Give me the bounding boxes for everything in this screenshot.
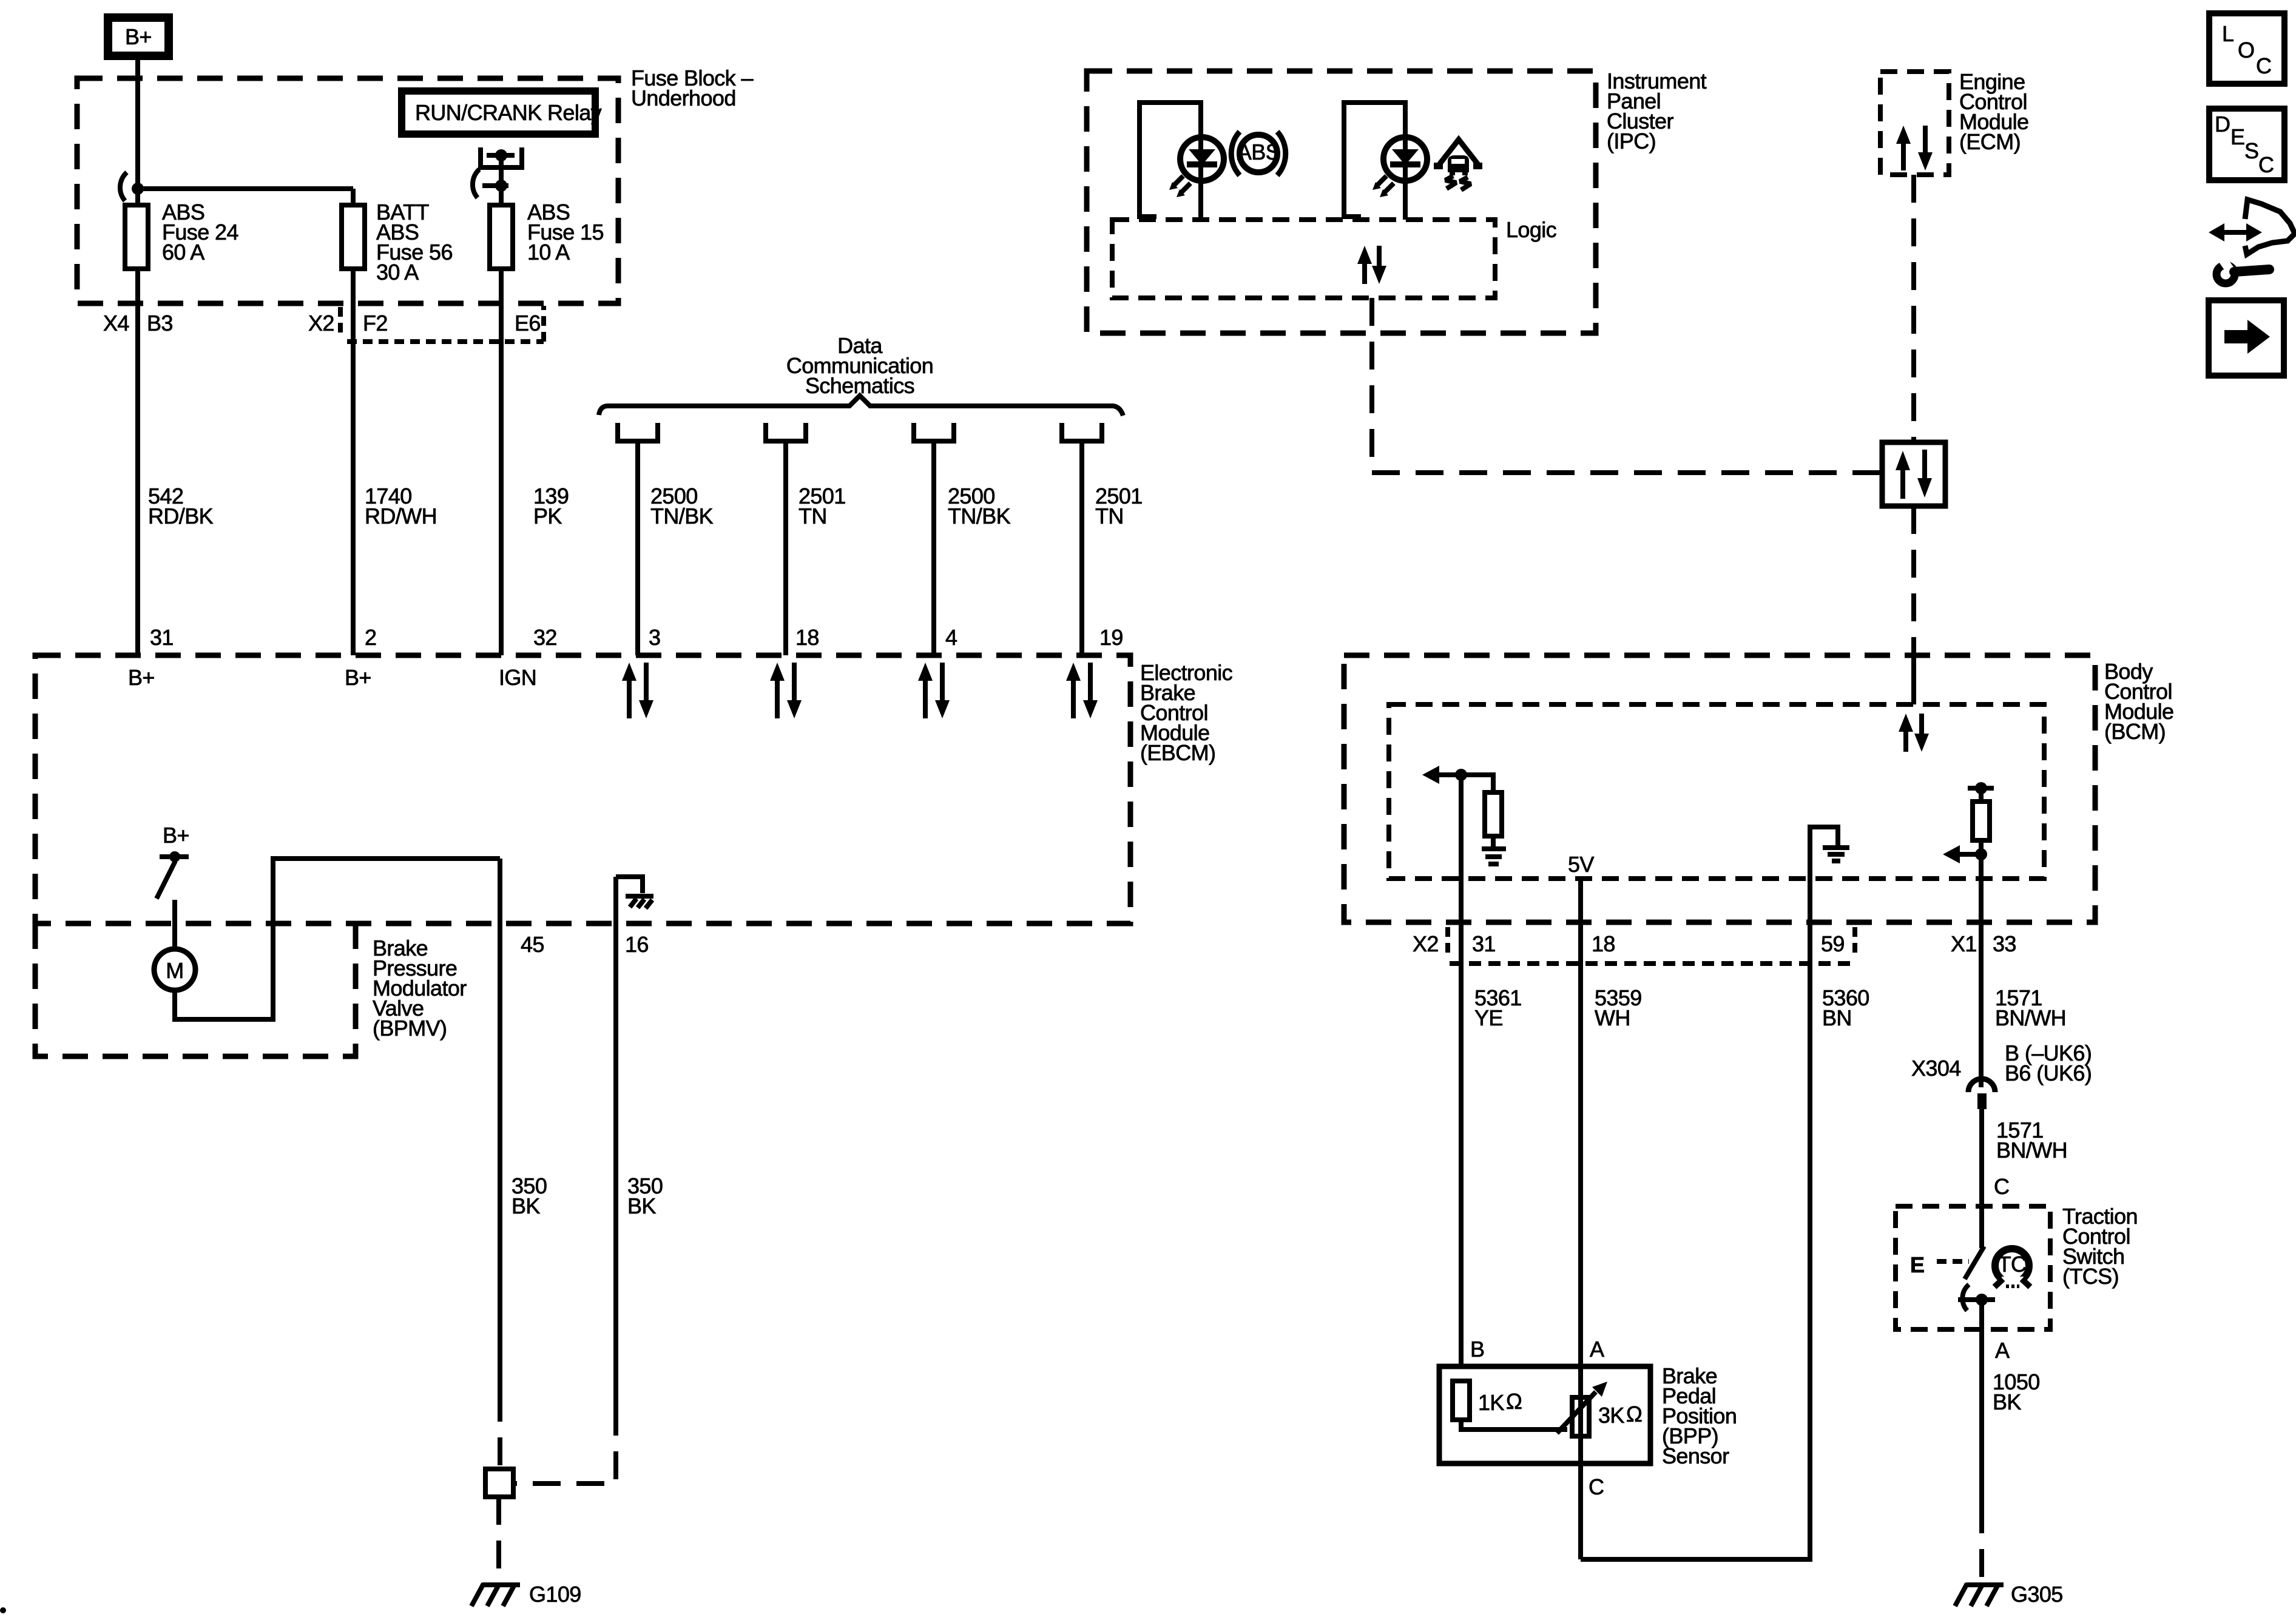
- battery feed symbol B+: [108, 18, 169, 56]
- svg-text:4: 4: [945, 625, 957, 650]
- resistor 1K ohm: [1453, 1381, 1522, 1420]
- module ECM label: [1959, 69, 2028, 154]
- svg-text:B+: B+: [345, 665, 371, 690]
- connector separator 59: [1852, 927, 1857, 954]
- wire label 1571 BN/WH upper: [1995, 985, 2066, 1030]
- splice options label B: [2005, 1041, 2092, 1085]
- svg-text:18: 18: [795, 625, 819, 650]
- switch contact TCS: [1958, 1284, 1995, 1311]
- svg-text:32: 32: [533, 625, 557, 650]
- signal tap arrow pin 31: [1422, 766, 1467, 784]
- svg-text:G109: G109: [529, 1582, 581, 1607]
- module IPC dashed box: [1087, 71, 1596, 333]
- svg-text:Ω: Ω: [1626, 1402, 1642, 1426]
- motor M pump: [154, 949, 195, 990]
- ground G109: [471, 1582, 581, 1607]
- svg-text:TN/BK: TN/BK: [948, 504, 1011, 528]
- fuse F15 ABS Fuse 15 10A: [490, 200, 604, 269]
- svg-text:B+: B+: [128, 665, 155, 690]
- svg-text:X4: X4: [103, 311, 129, 336]
- module BCM label: [2104, 659, 2173, 744]
- serial data arrows pin 19: [1066, 663, 1098, 718]
- serial data arrows pin 4: [918, 663, 950, 718]
- wire 1050 BK: [1979, 1329, 1984, 1505]
- signal tap arrow pin 33: [1943, 845, 1987, 863]
- svg-text:PK: PK: [533, 504, 562, 528]
- svg-text:A: A: [1590, 1337, 1604, 1362]
- BCM logic inner dashed box: [1389, 704, 2044, 879]
- svg-text:59: 59: [1821, 931, 1845, 956]
- svg-text:(BCM): (BCM): [2104, 719, 2166, 744]
- wire 1571 BN/WH lower: [1979, 1109, 1984, 1206]
- relay RUN/CRANK Relay: [402, 91, 602, 134]
- wire label 2500 TN/BK b: [948, 484, 1011, 528]
- wire 2501 TN serial data b: [1079, 441, 1084, 655]
- svg-text:B3: B3: [147, 311, 173, 336]
- splice connector S-box: [485, 1469, 513, 1497]
- wire 542 feed from B+ to fuse 24: [135, 60, 140, 655]
- connector X304: [1968, 1079, 1995, 1109]
- serial data junction box: [1882, 442, 1945, 506]
- serial data arrows IPC logic: [1357, 246, 1386, 284]
- svg-text:BK: BK: [512, 1193, 540, 1218]
- LED ABS indicator: [1169, 137, 1224, 220]
- wire into TCS switch: [1979, 1206, 1984, 1248]
- svg-text:31: 31: [1472, 931, 1496, 956]
- data link connector 3: [914, 423, 954, 441]
- svg-text:C: C: [2256, 53, 2271, 78]
- ground symbol BCM right: [1823, 848, 1849, 861]
- svg-text:B6 (UK6): B6 (UK6): [2005, 1061, 2092, 1085]
- svg-text:X2: X2: [1413, 931, 1439, 956]
- module ECM dashed box: [1880, 72, 1949, 175]
- svg-text:C: C: [1994, 1174, 2009, 1199]
- svg-text:X304: X304: [1911, 1056, 1961, 1081]
- indicator TC symbol: [1994, 1249, 2030, 1289]
- svg-text:Ω: Ω: [1506, 1389, 1522, 1414]
- wire label 5359 WH: [1595, 985, 1642, 1030]
- svg-text:60 A: 60 A: [162, 240, 204, 265]
- wire label 139 PK: [533, 484, 569, 528]
- wire label 350 BK a: [512, 1173, 547, 1218]
- svg-text:Sensor: Sensor: [1662, 1443, 1729, 1468]
- wire junction feed to fuse 56: [120, 172, 353, 201]
- connector pin labels X2 F2: [308, 311, 388, 336]
- wire label 5360 BN: [1822, 985, 1869, 1030]
- svg-text:F2: F2: [363, 311, 388, 336]
- svg-text:Logic: Logic: [1506, 217, 1557, 242]
- svg-text:D: D: [2215, 112, 2230, 137]
- svg-text:30 A: 30 A: [376, 260, 419, 285]
- svg-text:5V: 5V: [1568, 852, 1594, 877]
- svg-text:16: 16: [625, 932, 649, 957]
- fuse block underhood dashed box: [77, 78, 618, 303]
- svg-text:A: A: [1995, 1338, 2010, 1363]
- data communication schematics label: [786, 333, 933, 398]
- wire junction at fuse 15: [473, 169, 508, 198]
- wire label 5361 YE: [1474, 985, 1522, 1030]
- icon diagnostic wrench: [2209, 200, 2295, 283]
- wire 5361 YE: [1459, 775, 1464, 1366]
- svg-text:(IPC): (IPC): [1607, 129, 1656, 154]
- connector face dotted line BCM: [1450, 961, 1855, 966]
- connector face dashed outline X2: [340, 306, 544, 342]
- module BCM dashed box: [1344, 655, 2095, 922]
- svg-text:3K: 3K: [1598, 1403, 1624, 1428]
- svg-text:RD/WH: RD/WH: [365, 504, 437, 528]
- svg-text:C: C: [2258, 152, 2274, 177]
- svg-text:18: 18: [1592, 931, 1615, 956]
- potentiometer 3K ohm: [1557, 1382, 1642, 1436]
- wire label 2501 TN b: [1095, 484, 1143, 528]
- connector pin labels X4 B3: [103, 311, 173, 336]
- wire TCS to pin A: [1979, 1300, 1984, 1329]
- dashed wire 1050 to ground: [1979, 1505, 1984, 1580]
- wire 2500 TN/BK serial data: [635, 441, 640, 655]
- module IPC label: [1607, 69, 1707, 154]
- ground loop pin 16: [616, 877, 643, 893]
- brace for data communication schematics: [599, 396, 1123, 416]
- dashed wire 16 to splice: [513, 1408, 616, 1484]
- svg-text:BN/WH: BN/WH: [1995, 1005, 2066, 1030]
- svg-text:RUN/CRANK Relay: RUN/CRANK Relay: [415, 100, 602, 125]
- wire 1K to wiper: [1461, 1420, 1567, 1430]
- dashed wire 45 to splice: [498, 1394, 502, 1469]
- svg-text:BN: BN: [1822, 1005, 1852, 1030]
- serial data arrows pin 3: [622, 663, 653, 718]
- svg-text:B+: B+: [125, 24, 152, 49]
- svg-text:BK: BK: [1993, 1389, 2021, 1414]
- wire 350 BK pin 45: [498, 859, 502, 1394]
- svg-text:B+: B+: [163, 823, 189, 848]
- switch TCS label: [2062, 1204, 2138, 1289]
- page dot: [0, 1607, 6, 1613]
- svg-text:19: 19: [1099, 625, 1123, 650]
- wire 5360 BN: [1581, 923, 1810, 1559]
- wire 5359 WH: [1578, 923, 1583, 1559]
- module EBCM label: [1140, 660, 1233, 765]
- svg-text:31: 31: [150, 625, 174, 650]
- serial data arrows BCM: [1899, 714, 1929, 752]
- svg-text:X2: X2: [308, 311, 334, 336]
- data link connector 2: [766, 423, 806, 441]
- connector separator X2: [1445, 927, 1450, 956]
- svg-text:Underhood: Underhood: [631, 86, 736, 110]
- svg-text:TN: TN: [799, 504, 827, 528]
- svg-text:(BPMV): (BPMV): [373, 1016, 447, 1041]
- svg-text:S: S: [2244, 138, 2258, 163]
- node B+ inside BPMV pump circuit: [160, 823, 189, 862]
- wire 139 from relay to fuse 15: [499, 155, 504, 655]
- LED traction indicator: [1373, 137, 1427, 220]
- serial data arrows pin 18: [770, 663, 802, 718]
- wire 350 BK pin 16: [613, 877, 618, 1408]
- svg-text:G305: G305: [2011, 1582, 2063, 1607]
- wire 1571 BN/WH upper: [1979, 923, 1984, 1087]
- switch TCS dashed box: [1896, 1206, 2050, 1329]
- svg-text:3: 3: [649, 625, 660, 650]
- svg-text:IGN: IGN: [499, 665, 536, 690]
- module BPMV label: [373, 936, 467, 1041]
- switch pump relay contact: [157, 861, 175, 899]
- svg-text:2: 2: [365, 625, 376, 650]
- fuse F24 ABS Fuse 24 60A: [125, 200, 238, 269]
- svg-text:ABS: ABS: [1237, 140, 1280, 164]
- wire label 2500 TN/BK: [650, 484, 714, 528]
- wire 1740 feed to fuse 56: [351, 189, 356, 655]
- icon description box DESC: [2209, 109, 2284, 180]
- dashed wire junction to BCM: [1911, 506, 1916, 645]
- svg-text:BN/WH: BN/WH: [1996, 1138, 2067, 1163]
- svg-text:WH: WH: [1595, 1005, 1630, 1030]
- svg-text:X1: X1: [1951, 931, 1977, 956]
- wire serial data into BCM: [1911, 645, 1916, 704]
- chassis ground EBCM pin 16: [626, 896, 653, 908]
- lamp driver loop traction indicator: [1344, 103, 1405, 217]
- serial data arrows ECM: [1896, 126, 1933, 170]
- data link connector 4: [1062, 423, 1102, 441]
- wire motor loop to pin 45: [175, 859, 500, 1019]
- svg-text:(EBCM): (EBCM): [1140, 740, 1215, 765]
- lamp driver loop ABS indicator: [1140, 103, 1201, 217]
- dashed wire IPC serial data: [1372, 298, 1882, 473]
- svg-text:C: C: [1589, 1474, 1604, 1499]
- svg-text:(ECM): (ECM): [1959, 129, 2021, 154]
- relay contact terminal: [481, 147, 522, 167]
- pull-up resistor BCM right: [1968, 782, 1994, 854]
- module EBCM dashed box: [35, 655, 1130, 923]
- logic block dashed box: [1112, 220, 1495, 298]
- dashed wire ECM serial data: [1911, 175, 1916, 442]
- module BPMV dashed outline: [35, 923, 356, 1056]
- wire 2500 TN/BK serial data b: [931, 441, 936, 655]
- pull-up resistor BCM left: [1461, 775, 1502, 846]
- wire label 1050 BK: [1993, 1369, 2040, 1414]
- wire label 1740 RD/WH: [365, 484, 437, 528]
- svg-text:45: 45: [521, 932, 544, 957]
- wire label 542 RD/BK: [148, 484, 214, 528]
- dashed wire splice to ground: [496, 1497, 501, 1580]
- svg-text:L: L: [2222, 21, 2234, 46]
- svg-text:(TCS): (TCS): [2062, 1264, 2119, 1289]
- svg-text:TN/BK: TN/BK: [650, 504, 714, 528]
- ground G305: [1955, 1582, 2063, 1607]
- svg-text:1K: 1K: [1478, 1390, 1504, 1415]
- indicator symbol traction control lamp: [1434, 140, 1482, 190]
- sensor BPP box: [1439, 1366, 1650, 1463]
- fuse F56 BATT ABS Fuse 56 30A: [342, 200, 453, 285]
- svg-text:B: B: [1470, 1337, 1484, 1362]
- svg-text:10 A: 10 A: [527, 240, 570, 265]
- dashed link E to switch: [1937, 1259, 1969, 1264]
- wire label 1571 BN/WH lower: [1996, 1118, 2067, 1163]
- svg-text:E: E: [2230, 124, 2244, 149]
- svg-text:RD/BK: RD/BK: [148, 504, 214, 528]
- ground loop pin 59: [1810, 827, 1838, 923]
- sensor BPP label: [1662, 1363, 1737, 1468]
- icon forward arrow box: [2209, 300, 2284, 376]
- svg-text:TN: TN: [1095, 504, 1124, 528]
- wire switch to motor: [172, 900, 177, 950]
- svg-text:M: M: [166, 958, 183, 983]
- ground symbol BCM left: [1482, 849, 1506, 864]
- svg-text:O: O: [2238, 38, 2254, 62]
- icon location box LOC: [2209, 13, 2284, 84]
- wire 5V to pin 18: [1578, 879, 1583, 923]
- svg-text:TC: TC: [1998, 1252, 2027, 1277]
- label Fuse Block - Underhood: [631, 66, 753, 110]
- wire label 350 BK b: [627, 1173, 663, 1218]
- svg-text:33: 33: [1993, 931, 2016, 956]
- wire label 2501 TN: [799, 484, 846, 528]
- svg-text:BK: BK: [627, 1193, 656, 1218]
- svg-text:E6: E6: [515, 311, 541, 336]
- switch blade TCS: [1965, 1246, 1984, 1279]
- svg-text:E: E: [1910, 1252, 1924, 1277]
- wire pull-up to pin 33: [1979, 854, 1984, 923]
- data link connector 1: [618, 423, 658, 441]
- svg-text:YE: YE: [1474, 1005, 1503, 1030]
- wire 2501 TN serial data: [783, 441, 788, 655]
- indicator symbol ABS warning lamp: [1231, 132, 1286, 175]
